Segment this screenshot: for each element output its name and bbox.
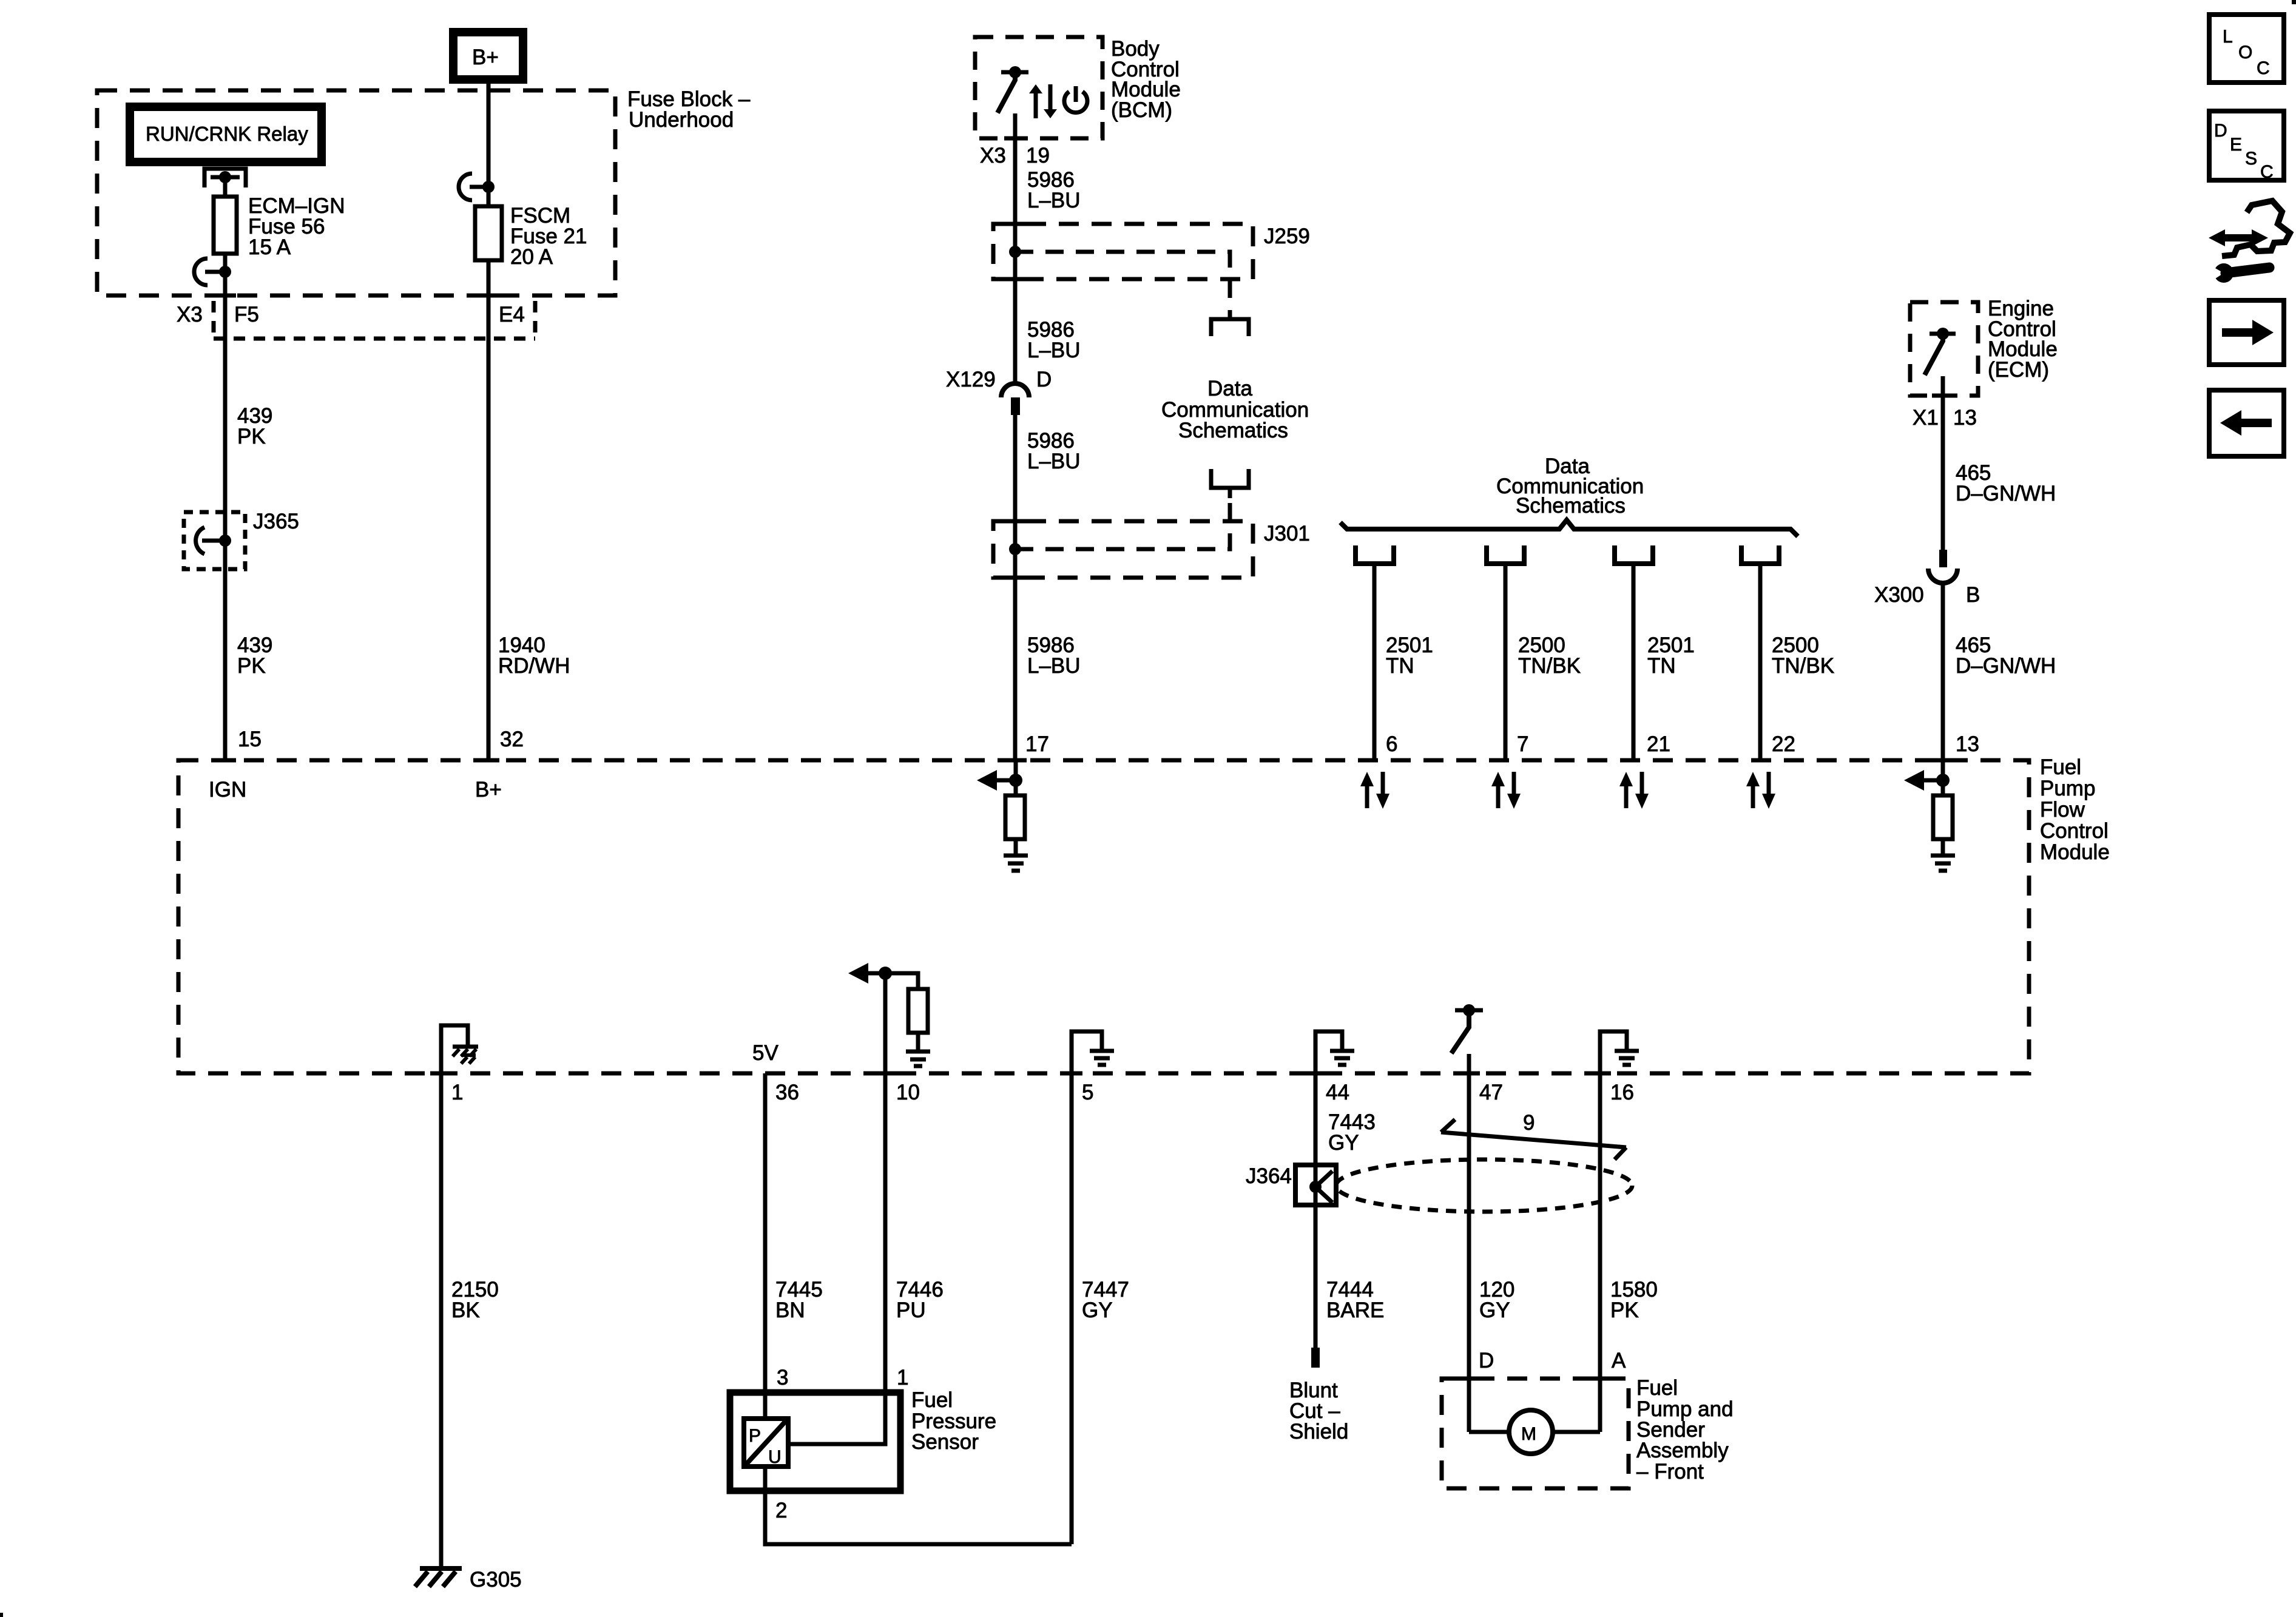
connector X3/F5/E4 dotted separator line	[214, 337, 535, 341]
icon vehicle/wrench with double arrow	[2218, 234, 2258, 241]
svg-text:RD/WH: RD/WH	[498, 654, 570, 678]
svg-text:PK: PK	[237, 425, 266, 448]
svg-text:X300: X300	[1874, 583, 1924, 607]
svg-text:E4: E4	[499, 303, 525, 326]
up/down arrows pin7	[1496, 785, 1501, 808]
svg-text:Module: Module	[2040, 840, 2110, 864]
svg-text:GY: GY	[1479, 1298, 1510, 1322]
ground G305	[420, 1566, 462, 1571]
pin16 internal ground hook	[1600, 1031, 1627, 1073]
svg-text:Schematics: Schematics	[1516, 494, 1626, 518]
fuse ECM-IGN Fuse 56 15A	[214, 197, 237, 254]
svg-text:3: 3	[777, 1366, 788, 1389]
svg-text:Shield: Shield	[1289, 1420, 1348, 1443]
svg-text:17: 17	[1025, 732, 1049, 756]
svg-text:P: P	[749, 1426, 761, 1446]
splice J364 box	[1295, 1165, 1336, 1205]
page corner mark bottom left	[0, 1613, 3, 1617]
svg-text:Schematics: Schematics	[1178, 419, 1288, 442]
svg-text:D–GN/WH: D–GN/WH	[1956, 482, 2056, 505]
wire BCM circuit 5986 L-BU (vertical, x=1673)	[1013, 113, 1018, 383]
icon back arrow box	[2209, 390, 2284, 456]
wire 7447 GY (x=1766)	[1070, 1073, 1074, 1544]
BCM up arrow	[1034, 92, 1038, 118]
svg-text:D–GN/WH: D–GN/WH	[1956, 654, 2056, 678]
svg-text:X129: X129	[946, 368, 996, 391]
BCM driver switch	[1001, 70, 1028, 75]
fuel pressure sensor box	[730, 1393, 900, 1491]
svg-text:(ECM): (ECM)	[1988, 358, 2049, 382]
BCM down arrow	[1048, 84, 1053, 110]
tick wire crossings J259	[1004, 222, 1026, 226]
wire 1580 PK (x=2637)	[1598, 1073, 1602, 1432]
up/down arrows pin6	[1365, 785, 1369, 808]
wire 2501 TN drop 1	[1373, 564, 1377, 760]
wire ECM circuit 465 D-GN/WH (vertical, x=3202)	[1941, 376, 1945, 550]
svg-text:A: A	[1612, 1349, 1626, 1372]
pin10 internal: junction dot	[879, 967, 892, 980]
svg-text:22: 22	[1772, 732, 1795, 756]
relay contact bracket	[204, 169, 246, 187]
ground pin10	[906, 1050, 930, 1054]
svg-text:B+: B+	[475, 778, 502, 802]
svg-text:E: E	[2230, 135, 2242, 155]
svg-text:Fuel: Fuel	[911, 1388, 953, 1412]
svg-text:J365: J365	[253, 510, 299, 533]
svg-text:16: 16	[1610, 1081, 1634, 1104]
svg-text:Fuel: Fuel	[1636, 1376, 1678, 1400]
svg-text:GY: GY	[1328, 1131, 1359, 1155]
svg-text:L–BU: L–BU	[1027, 450, 1081, 473]
BCM power symbol	[1064, 92, 1087, 112]
svg-text:Assembly: Assembly	[1636, 1439, 1729, 1462]
wire ECM-IGN circuit 439 PK (vertical, x=371)	[223, 177, 228, 760]
svg-text:C: C	[2260, 162, 2274, 182]
wire motor link	[1469, 1430, 1600, 1434]
FPFCM dashed module box	[178, 760, 2029, 1073]
pin5 internal ground hook	[1072, 1031, 1102, 1073]
icon forward arrow box	[2209, 300, 2284, 365]
svg-text:19: 19	[1026, 144, 1050, 167]
terminal cup drop 3	[1615, 545, 1653, 564]
svg-text:IGN: IGN	[209, 778, 246, 802]
J301 inner dashed branch	[1015, 498, 1230, 549]
pin13 internal pullup: wire	[1941, 760, 1945, 795]
chassis ground pin1	[453, 1045, 478, 1049]
wire 2150 BK (x=727)	[439, 1073, 444, 1567]
J365 terminal clip	[196, 527, 204, 554]
svg-text:TN/BK: TN/BK	[1772, 654, 1834, 678]
svg-text:TN: TN	[1647, 654, 1676, 678]
svg-text:1: 1	[451, 1081, 463, 1104]
svg-text:21: 21	[1647, 732, 1670, 756]
svg-text:Control: Control	[2040, 819, 2109, 843]
up/down arrows pin21	[1624, 785, 1629, 808]
ground pin44	[1330, 1049, 1354, 1053]
node junction dot pin13	[1936, 774, 1950, 787]
B+ power box	[453, 32, 523, 79]
svg-text:BN: BN	[775, 1298, 805, 1322]
svg-text:X3: X3	[980, 144, 1006, 167]
svg-text:Sensor: Sensor	[911, 1430, 979, 1454]
svg-text:6: 6	[1386, 732, 1397, 756]
svg-text:Data: Data	[1207, 377, 1252, 400]
svg-text:Underhood: Underhood	[629, 108, 734, 132]
terminal cup drop 4	[1741, 545, 1779, 564]
ticks crossing pump box top at D and A	[1458, 1377, 1480, 1381]
page corner mark top right	[2292, 0, 2296, 4]
svg-text:TN: TN	[1386, 654, 1414, 678]
svg-text:C: C	[2257, 58, 2270, 78]
wire 7445 BN (x=1261) through sensor to P/U	[763, 1073, 768, 1491]
icon LOC box	[2209, 15, 2284, 83]
svg-text:10: 10	[896, 1081, 920, 1104]
svg-text:M: M	[1521, 1424, 1536, 1444]
resistor pin10	[908, 989, 928, 1033]
svg-text:F5: F5	[234, 303, 259, 326]
node junction dot pin17	[1009, 774, 1022, 787]
svg-text:5: 5	[1082, 1081, 1093, 1104]
pin17 internal pullup: wire	[1014, 760, 1018, 795]
label 44 wire number 9 diagonal twisted lead	[1441, 1132, 1626, 1147]
svg-text:PK: PK	[1610, 1298, 1639, 1322]
pin1 internal ground hook	[441, 1025, 468, 1073]
svg-text:Fuel: Fuel	[2040, 755, 2081, 779]
svg-text:D: D	[1479, 1349, 1494, 1372]
tick crossing fuse block bottom edge at wire 805	[478, 294, 499, 298]
svg-text:B: B	[1966, 583, 1980, 607]
J301 goal-post terminal to data schematics	[1211, 469, 1249, 488]
svg-text:J364: J364	[1246, 1164, 1292, 1188]
ground pin5	[1090, 1049, 1114, 1053]
svg-text:GY: GY	[1082, 1298, 1113, 1322]
terminal cup drop 1	[1356, 545, 1394, 564]
terminal cup drop 2	[1487, 545, 1524, 564]
svg-text:G305: G305	[470, 1568, 522, 1592]
svg-text:7: 7	[1517, 732, 1528, 756]
tick at BCM box bottom crossing	[1004, 137, 1026, 141]
pin44 internal ground hook	[1315, 1031, 1342, 1073]
svg-text:L–BU: L–BU	[1027, 339, 1081, 362]
svg-text:1: 1	[897, 1366, 908, 1389]
motor M fuel pump	[1509, 1410, 1553, 1454]
svg-text:BK: BK	[451, 1298, 480, 1322]
resistor pin17	[1005, 795, 1025, 839]
fuse block underhood dashed box	[97, 90, 615, 295]
wire 2500 TN/BK drop 4	[1758, 564, 1763, 760]
pin47 internal switch	[1455, 1008, 1483, 1013]
svg-text:5V: 5V	[752, 1041, 778, 1065]
svg-text:13: 13	[1953, 406, 1977, 430]
svg-text:B+: B+	[472, 46, 499, 69]
svg-text:47: 47	[1479, 1081, 1503, 1104]
J259 inner dashed branch	[1015, 252, 1230, 310]
ground pin17	[1004, 854, 1028, 858]
arrow left pin10	[848, 963, 868, 984]
ECM driver switch	[1930, 332, 1956, 336]
svg-text:2: 2	[775, 1499, 787, 1522]
wire pin2 route to pin5 wire	[765, 1491, 1072, 1544]
svg-text:X1: X1	[1913, 406, 1939, 430]
svg-text:D: D	[2214, 121, 2227, 141]
svg-text:RUN/CRNK Relay: RUN/CRNK Relay	[146, 123, 308, 145]
svg-text:44: 44	[1326, 1081, 1349, 1104]
svg-text:20 A: 20 A	[510, 245, 553, 269]
ticks crossing FPFCM top edge at pins	[214, 758, 236, 763]
svg-text:TN/BK: TN/BK	[1518, 654, 1581, 678]
tick at ECM box bottom crossing	[1932, 394, 1954, 398]
ticks crossing FPFCM bottom edge at pins	[430, 1072, 452, 1076]
ECM dashed box	[1910, 302, 1978, 396]
wire 120 GY (x=2421)	[1467, 1054, 1471, 1432]
fuse FSCM Fuse 21 20A	[475, 206, 502, 260]
svg-text:BARE: BARE	[1326, 1298, 1384, 1322]
arrow left pin17	[977, 770, 997, 791]
node splice dot J259	[1009, 246, 1021, 258]
terminal clip below fuse 56	[194, 258, 208, 285]
wire 7446 PU (x=1459) down to sensor pin1 and into P/U	[788, 973, 885, 1444]
up/down arrows pin22	[1751, 785, 1755, 808]
wire FSCM circuit B+/1940 RD/WH (vertical, x=805)	[487, 79, 491, 760]
svg-text:Flow: Flow	[2040, 798, 2085, 822]
splice J259 dashed box	[993, 224, 1253, 279]
BCM dashed box	[975, 37, 1102, 138]
svg-text:L: L	[2223, 27, 2233, 47]
splice J301 dashed box	[993, 521, 1253, 578]
svg-text:– Front: – Front	[1636, 1460, 1704, 1484]
branch to resistor pin10	[885, 973, 918, 989]
svg-text:L–BU: L–BU	[1027, 189, 1081, 212]
svg-text:J259: J259	[1264, 224, 1310, 248]
node splice dot J301	[1009, 543, 1021, 555]
wire 2500 TN/BK drop 2	[1504, 564, 1508, 760]
wire 2501 TN drop 3	[1632, 564, 1636, 760]
svg-text:D: D	[1036, 368, 1052, 391]
wire 7443 GY / 7444 BARE (x=2168)	[1314, 1073, 1318, 1348]
svg-text:U: U	[768, 1447, 782, 1467]
tick wire crossings J301	[1004, 519, 1026, 524]
icon DESC box	[2209, 111, 2284, 180]
svg-text:15: 15	[238, 727, 262, 751]
resistor pin13	[1933, 795, 1953, 839]
tick crossing fuse block bottom edge at wire 371	[214, 294, 236, 298]
svg-text:X3: X3	[177, 303, 203, 326]
arrow left pin13	[1904, 770, 1924, 791]
shield ellipse dashed	[1336, 1160, 1632, 1212]
svg-text:Pump: Pump	[2040, 777, 2095, 800]
svg-text:PK: PK	[237, 654, 266, 678]
svg-text:S: S	[2245, 149, 2257, 169]
ground pin16	[1615, 1049, 1639, 1053]
svg-text:9: 9	[1523, 1111, 1535, 1135]
svg-text:15 A: 15 A	[248, 235, 291, 259]
brace over data communication drops	[1340, 520, 1798, 536]
svg-text:L–BU: L–BU	[1027, 654, 1081, 678]
connector X129 (female cup over male blade)	[1001, 383, 1029, 397]
svg-text:J301: J301	[1264, 522, 1310, 545]
svg-text:32: 32	[500, 727, 524, 751]
svg-text:O: O	[2238, 42, 2252, 62]
svg-text:(BCM): (BCM)	[1111, 98, 1172, 122]
fuel pump dashed box	[1442, 1379, 1629, 1488]
svg-text:36: 36	[775, 1081, 799, 1104]
ground pin13	[1931, 854, 1955, 858]
svg-text:PU: PU	[896, 1298, 926, 1322]
terminal clip above fuse 21	[459, 174, 472, 200]
blunt cut shield stub	[1311, 1348, 1320, 1368]
svg-text:13: 13	[1956, 732, 1979, 756]
RUN/CRNK Relay box	[130, 107, 322, 162]
P/U transducer symbol	[744, 1419, 788, 1467]
J364 arrow terminal	[1309, 1181, 1322, 1193]
splice J365 dashed box	[184, 512, 245, 569]
J259 goal-post terminal to data schematics	[1211, 319, 1249, 336]
connector X300 (male blade over female cup)	[1939, 550, 1947, 567]
